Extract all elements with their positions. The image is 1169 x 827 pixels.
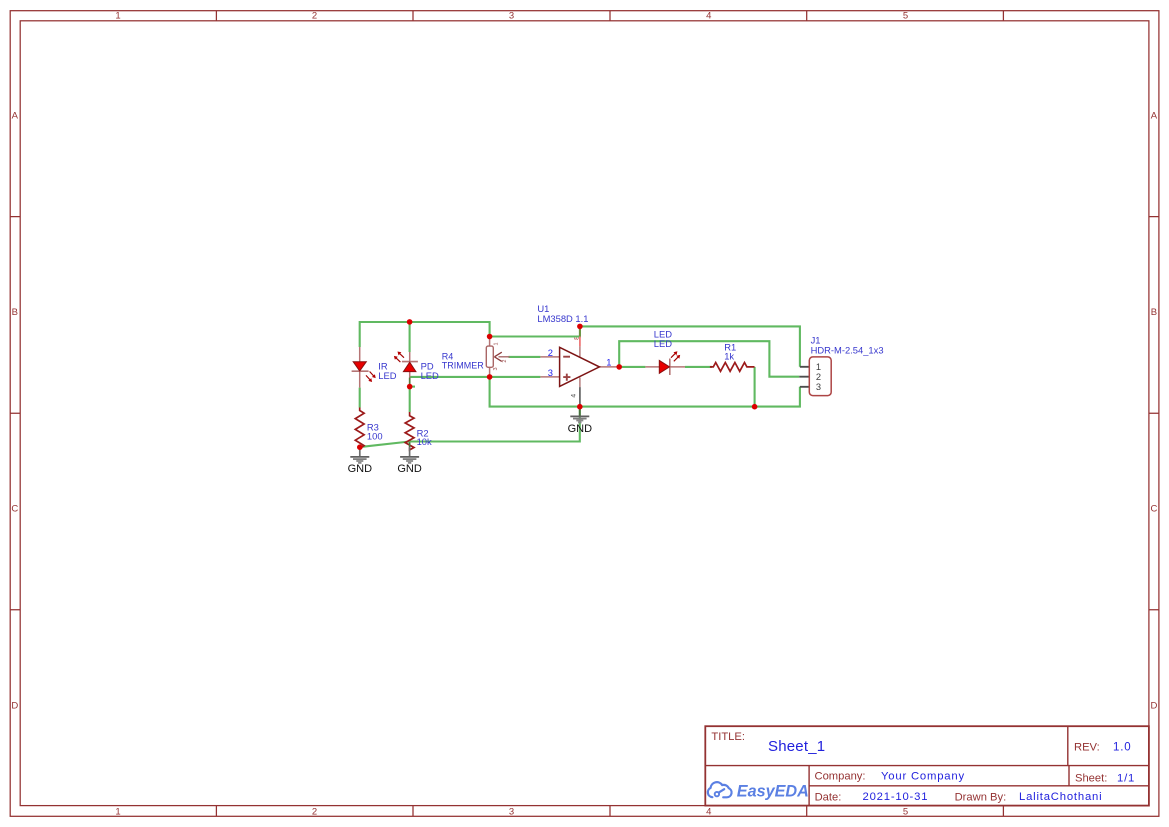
svg-text:1/1: 1/1 — [1117, 772, 1135, 784]
svg-text:2: 2 — [502, 360, 508, 363]
svg-text:10k: 10k — [417, 436, 432, 447]
svg-text:2021-10-31: 2021-10-31 — [863, 791, 929, 803]
svg-text:C: C — [1150, 504, 1157, 515]
svg-text:Sheet:: Sheet: — [1075, 773, 1107, 785]
svg-text:D: D — [1150, 700, 1157, 711]
svg-text:2: 2 — [816, 372, 821, 382]
svg-text:Drawn By:: Drawn By: — [955, 791, 1007, 803]
svg-text:B: B — [12, 307, 18, 318]
svg-text:GND: GND — [348, 463, 373, 475]
svg-text:A: A — [12, 111, 19, 122]
svg-text:3: 3 — [493, 367, 499, 370]
svg-text:2: 2 — [312, 807, 317, 818]
svg-text:1: 1 — [816, 362, 821, 372]
svg-text:LED: LED — [378, 370, 396, 381]
svg-text:REV:: REV: — [1074, 741, 1100, 753]
svg-text:1: 1 — [115, 807, 120, 818]
svg-text:2: 2 — [312, 11, 317, 22]
svg-text:3: 3 — [548, 367, 553, 378]
svg-text:Date:: Date: — [815, 791, 842, 803]
svg-text:Your Company: Your Company — [881, 770, 965, 782]
svg-text:1: 1 — [606, 356, 611, 367]
svg-text:HDR-M-2.54_1x3: HDR-M-2.54_1x3 — [811, 344, 884, 355]
svg-text:1k: 1k — [724, 350, 734, 361]
svg-text:GND: GND — [568, 423, 593, 435]
svg-text:3: 3 — [509, 807, 514, 818]
svg-text:LalitaChothani: LalitaChothani — [1019, 791, 1102, 803]
svg-text:3: 3 — [816, 382, 821, 392]
svg-text:1: 1 — [493, 342, 499, 345]
svg-text:3: 3 — [509, 11, 514, 22]
svg-text:1: 1 — [115, 11, 120, 22]
svg-text:Company:: Company: — [815, 770, 866, 782]
svg-text:Sheet_1: Sheet_1 — [768, 738, 825, 755]
svg-text:4: 4 — [706, 11, 711, 22]
svg-text:B: B — [1151, 307, 1157, 318]
svg-text:A: A — [1151, 111, 1158, 122]
svg-text:C: C — [11, 504, 18, 515]
svg-text:LM358D 1.1: LM358D 1.1 — [537, 313, 588, 324]
svg-text:TRIMMER: TRIMMER — [442, 361, 484, 371]
svg-text:100: 100 — [367, 430, 383, 441]
svg-text:5: 5 — [903, 11, 908, 22]
svg-text:LED: LED — [421, 370, 439, 381]
svg-text:4: 4 — [706, 807, 711, 818]
svg-text:GND: GND — [397, 463, 422, 475]
svg-text:TITLE:: TITLE: — [711, 731, 745, 743]
svg-text:2: 2 — [548, 347, 553, 358]
svg-text:1.0: 1.0 — [1113, 741, 1131, 753]
svg-text:EasyEDA: EasyEDA — [737, 782, 809, 800]
svg-text:D: D — [11, 700, 18, 711]
svg-text:LED: LED — [654, 338, 672, 349]
svg-text:5: 5 — [903, 807, 908, 818]
svg-text:4: 4 — [570, 394, 577, 398]
